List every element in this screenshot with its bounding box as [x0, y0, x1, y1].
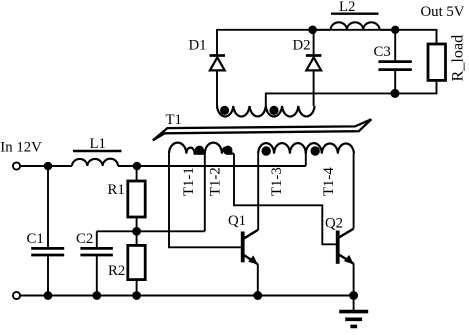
- svg-text:Q1: Q1: [228, 213, 246, 229]
- svg-text:R_load: R_load: [448, 35, 466, 82]
- svg-text:T1: T1: [166, 112, 182, 128]
- svg-text:T1-2: T1-2: [207, 167, 223, 196]
- svg-text:L2: L2: [339, 0, 355, 15]
- svg-text:R1: R1: [108, 182, 125, 198]
- svg-text:T1-3: T1-3: [269, 167, 285, 196]
- svg-text:C2: C2: [76, 231, 93, 247]
- svg-text:R2: R2: [108, 263, 125, 279]
- svg-text:L1: L1: [90, 136, 106, 152]
- svg-text:Out 5V: Out 5V: [421, 4, 465, 20]
- svg-text:C1: C1: [27, 231, 44, 247]
- svg-text:C3: C3: [374, 44, 391, 60]
- svg-text:In 12V: In 12V: [0, 140, 42, 156]
- svg-text:T1-4: T1-4: [321, 167, 337, 196]
- svg-text:T1-1: T1-1: [181, 167, 197, 196]
- svg-text:Q2: Q2: [325, 216, 343, 232]
- svg-text:D1: D1: [189, 38, 207, 54]
- svg-text:D2: D2: [293, 38, 311, 54]
